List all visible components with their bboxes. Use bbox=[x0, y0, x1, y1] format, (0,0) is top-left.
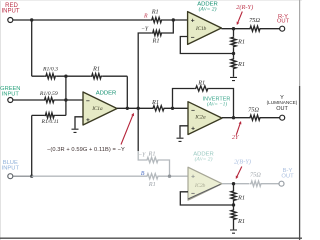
resistor R1 (Y row to inverter) bbox=[152, 106, 165, 111]
svg-text:OUT: OUT bbox=[281, 174, 294, 180]
wire -Y row to junction bbox=[163, 20, 174, 33]
svg-text:OUT: OUT bbox=[276, 106, 288, 112]
wire IC2a plus to ground bbox=[180, 126, 188, 138]
svg-text:75Ω: 75Ω bbox=[248, 107, 259, 114]
svg-text:(LUMINANCE): (LUMINANCE) bbox=[267, 100, 298, 105]
svg-text:R1: R1 bbox=[148, 181, 156, 188]
svg-text:2(B-Y): 2(B-Y) bbox=[234, 158, 251, 165]
svg-text:INPUT: INPUT bbox=[2, 9, 20, 15]
svg-text:75Ω: 75Ω bbox=[249, 17, 260, 24]
wire R1/0.3 row bbox=[32, 75, 91, 77]
svg-text:−(0.3R + 0.59G + 0.11B) = −Y: −(0.3R + 0.59G + 0.11B) = −Y bbox=[47, 147, 125, 153]
arrow 2Y to node bbox=[236, 124, 240, 135]
arrow 2(R-Y) to node bbox=[238, 12, 242, 23]
terminal Y OUT bbox=[280, 115, 285, 120]
wire R1/0.11 row bbox=[32, 114, 66, 116]
terminal B-Y OUT bbox=[279, 181, 284, 186]
wire B row bbox=[32, 175, 146, 177]
wire -Y bus up bbox=[138, 33, 152, 108]
op-amp IC2a bbox=[188, 102, 222, 135]
node divider tap IC1b bbox=[233, 48, 235, 58]
wire IC1b minus feedback bbox=[180, 37, 233, 54]
svg-text:R1: R1 bbox=[237, 38, 245, 45]
ground IC2a bbox=[177, 138, 184, 141]
wire to ground2 bbox=[233, 221, 235, 230]
svg-text:+: + bbox=[191, 17, 195, 24]
svg-text:OUT: OUT bbox=[277, 19, 290, 25]
resistor R1 (B to IC2b) bbox=[146, 174, 159, 179]
terminal R-Y OUT bbox=[280, 26, 285, 31]
svg-text:R1: R1 bbox=[148, 150, 156, 157]
terminal GREEN INPUT bbox=[8, 98, 13, 103]
svg-text:−Y: −Y bbox=[138, 153, 146, 159]
svg-text:+: + bbox=[191, 173, 195, 180]
svg-text:R1: R1 bbox=[92, 66, 100, 73]
svg-text:IC2a: IC2a bbox=[194, 115, 206, 121]
node inverter input bbox=[171, 107, 174, 110]
ground divider2 bbox=[230, 230, 237, 233]
node blue junction bbox=[30, 175, 33, 178]
svg-text:−: − bbox=[191, 191, 195, 198]
resistor 75ohm B-Y bbox=[250, 181, 262, 186]
svg-text:ADDER: ADDER bbox=[96, 90, 117, 96]
node bus/0.3 bbox=[64, 75, 67, 78]
svg-text:+: + bbox=[86, 117, 90, 124]
wire -Y bottom row join bbox=[159, 160, 170, 176]
svg-text:INPUT: INPUT bbox=[2, 91, 20, 97]
svg-text:R1: R1 bbox=[237, 195, 245, 202]
svg-text:IC1a: IC1a bbox=[91, 106, 103, 112]
wire inverter feedback up bbox=[173, 89, 234, 118]
resistor R1/0.3 bbox=[45, 74, 56, 79]
svg-text:75Ω: 75Ω bbox=[250, 172, 261, 179]
svg-text:2(R-Y): 2(R-Y) bbox=[236, 4, 253, 11]
wire red bus down bbox=[31, 20, 33, 76]
svg-text:R1: R1 bbox=[197, 79, 205, 86]
node IC2a output bbox=[232, 116, 235, 119]
wire IC1a plus to ground bbox=[75, 117, 83, 129]
wire IC2a output row bbox=[222, 117, 280, 119]
svg-text:R1/0.11: R1/0.11 bbox=[40, 119, 59, 125]
resistor R1 (-Y to IC2b) bbox=[146, 157, 159, 162]
terminal RED INPUT bbox=[8, 18, 13, 23]
node R/-Y join bbox=[172, 18, 175, 21]
wire to IC1b plus bbox=[163, 19, 188, 21]
resistor R1 (-Y to IC1b) bbox=[152, 30, 163, 35]
terminal BLUE INPUT bbox=[8, 174, 13, 179]
svg-text:R1/0.59: R1/0.59 bbox=[39, 91, 58, 97]
resistor 75ohm Y bbox=[249, 115, 261, 120]
resistor R1 divider bottom bbox=[231, 58, 236, 70]
node feedback/output IC1a bbox=[126, 107, 129, 110]
svg-text:−: − bbox=[86, 98, 90, 105]
node red input junction bbox=[30, 18, 33, 21]
wire IC2b minus feedback bbox=[180, 192, 233, 205]
ground divider IC1b bbox=[230, 77, 237, 80]
wire IC1a output row bbox=[117, 107, 188, 109]
svg-text:R1: R1 bbox=[237, 218, 245, 225]
svg-text:R1: R1 bbox=[151, 99, 159, 106]
node IC1b output/divider bbox=[232, 27, 235, 30]
resistor R1/0.59 bbox=[41, 99, 83, 101]
resistor R1 (R to IC1b) bbox=[151, 17, 163, 22]
svg-text:R1: R1 bbox=[152, 37, 160, 44]
svg-text:+: + bbox=[191, 126, 195, 133]
wire IC2b output row bbox=[222, 183, 250, 185]
svg-text:(AV= −1): (AV= −1) bbox=[207, 100, 227, 107]
wire IC1b output row bbox=[221, 28, 279, 30]
svg-text:IC2b: IC2b bbox=[194, 183, 206, 189]
svg-text:R: R bbox=[143, 13, 148, 19]
svg-text:−: − bbox=[191, 35, 195, 42]
node IC2b output/divider bbox=[232, 182, 235, 185]
resistor 75ohm R-Y bbox=[249, 26, 261, 31]
wire red input row bbox=[13, 19, 151, 21]
wire blue bus up bbox=[31, 115, 33, 176]
resistor R1 divider top bbox=[233, 29, 235, 37]
ground IC1a bbox=[72, 129, 79, 132]
wire to ground bbox=[233, 70, 235, 77]
border frame (decorative, not labelled individually) bbox=[0, 0, 2, 240]
op-amp IC2b bbox=[188, 167, 222, 200]
op-amp IC1a bbox=[83, 92, 117, 125]
svg-text:(AV= 2): (AV= 2) bbox=[199, 5, 217, 12]
arrow formula to -Y node bbox=[121, 116, 133, 145]
wire B row to IC2b bbox=[159, 175, 188, 177]
wire green row bbox=[13, 99, 41, 101]
resistor R1 divider2 top bbox=[233, 184, 235, 190]
svg-text:−Y: −Y bbox=[141, 27, 149, 33]
resistor R1 feedback IC1a bbox=[102, 76, 127, 108]
svg-text:R1: R1 bbox=[151, 8, 159, 15]
resistor R1 divider2 bottom bbox=[231, 209, 236, 220]
resistor R1/0.11 bbox=[44, 113, 55, 118]
svg-text:R1: R1 bbox=[237, 61, 245, 68]
resistor R1 feedback IC2a bbox=[195, 86, 209, 91]
node divider2 tap bbox=[233, 202, 235, 210]
svg-text:R1/0.3: R1/0.3 bbox=[42, 66, 58, 72]
node bus/green bbox=[64, 98, 67, 101]
node B/-Y join bbox=[168, 175, 171, 178]
node -Y bus tap bbox=[137, 107, 140, 110]
svg-text:INPUT: INPUT bbox=[2, 165, 20, 171]
svg-text:(AV= 2): (AV= 2) bbox=[195, 156, 213, 163]
svg-text:IC1b: IC1b bbox=[195, 26, 207, 32]
op-amp IC1b bbox=[188, 12, 222, 45]
wire input bus vertical bbox=[65, 76, 67, 115]
arrow 2(B-Y) to node bbox=[237, 167, 242, 177]
wire -Y bus down bbox=[137, 108, 139, 151]
wire blue stub bbox=[13, 175, 32, 177]
